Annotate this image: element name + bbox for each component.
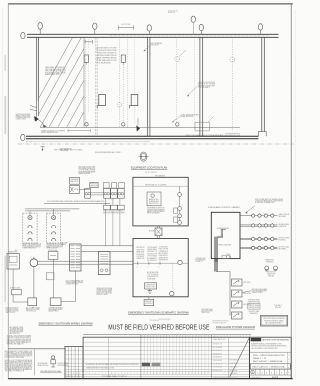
lamp sockets 2: [52, 225, 56, 227]
svg-text:9: 9: [127, 373, 128, 375]
svg-text:E: E: [288, 372, 289, 374]
svg-text:F: F: [288, 363, 289, 365]
leader from typical note: [144, 46, 150, 51]
svg-text:EXIST NO: EXIST NO: [275, 307, 282, 309]
pump motor circle: [30, 259, 38, 267]
ceiling junction circle 3: [176, 123, 179, 126]
svg-text:COIL WITH C: COIL WITH C: [145, 303, 153, 305]
small marks right wall area: [226, 132, 241, 134]
grid bubble C: [93, 23, 97, 29]
wire battery to bus: [12, 269, 14, 289]
shutdown schematic enclosure: [133, 239, 188, 297]
wall fixture box 1: [99, 95, 106, 106]
svg-text:7: 7: [207, 373, 208, 375]
svg-text:PER WITH: PER WITH: [244, 293, 251, 295]
svg-text:EMERGENCY SHUTDOWN SCHEMATIC D: EMERGENCY SHUTDOWN SCHEMATIC DIAGRAM: [128, 310, 189, 314]
svg-text:2: 2: [140, 373, 141, 375]
sheet border top: [8, 3, 293, 5]
future fixture dashed circle 2: [175, 57, 180, 62]
bottom device box 1: [28, 298, 37, 306]
svg-text:B: B: [201, 373, 202, 375]
svg-text:SEE PROVIDE COIL TO ZONE PR: SEE PROVIDE COIL TO ZONE PR: [145, 184, 166, 186]
dimension mark below beam: [85, 41, 92, 43]
svg-text:PROVIDE TY: PROVIDE TY: [90, 184, 97, 186]
drawing title row: [250, 364, 290, 369]
svg-text:W.M.L. CHRISTOPHER FACILITIES: W.M.L. CHRISTOPHER FACILITIES: [253, 354, 285, 357]
smoke damper note leader: [242, 291, 251, 293]
wire strip down: [74, 271, 76, 302]
svg-text:OF WITH BE PR: OF WITH BE PR: [147, 247, 157, 249]
remote relay box: [145, 283, 157, 289]
trouble bell symbol 1: [265, 266, 269, 270]
sheet border bottom: [8, 378, 293, 380]
FACP cabinet: [211, 212, 240, 258]
sheet border right: [290, 4, 292, 379]
trouble bell symbol 2: [274, 266, 278, 270]
mcc circle 2: [178, 207, 182, 211]
svg-text:2: 2: [143, 373, 144, 375]
mcc circle 4: [178, 221, 182, 225]
svg-text:FIRE ALARM SYSTEM DIAGRAM: FIRE ALARM SYSTEM DIAGRAM: [216, 326, 255, 329]
svg-text:WIRING NOTE: WIRING NOTE: [8, 251, 18, 253]
svg-text:DEVICES CONTR: DEVICES CONTR: [147, 253, 157, 255]
svg-text:NOTE RELAY MOUN: NOTE RELAY MOUN: [97, 62, 112, 65]
conduit dashed drop at x135: [134, 40, 136, 125]
svg-text:WIRING VERIFI: WIRING VERIFI: [147, 249, 157, 251]
svg-text:BE WITH NOTE FIELD OWNER: BE WITH NOTE FIELD OWNER: [265, 320, 284, 322]
relay unit 1: [104, 188, 111, 198]
svg-text:PROVIDE CONDUIT PROVIDE WIRING: PROVIDE CONDUIT PROVIDE WIRING EXISTING …: [251, 346, 287, 348]
svg-text:NEC WIRING: NEC WIRING: [230, 360, 238, 362]
wire fuse to relay row: [80, 189, 90, 191]
future fixture dashed circle 3: [230, 57, 235, 62]
svg-text:ZONE COIL TO OF C: ZONE COIL TO OF C: [214, 337, 226, 339]
wire pair to fixture boxes: [25, 208, 79, 210]
svg-text:DEVICES: DEVICES: [268, 275, 274, 277]
svg-text:PER FIELD CONT: PER FIELD CONT: [213, 370, 223, 372]
svg-text:EMERGENCY SHUTDOWN WIRING DIAG: EMERGENCY SHUTDOWN WIRING DIAGRAM: [39, 321, 93, 325]
mcc circle 1: [178, 193, 182, 197]
outer binding dotted line left: [1, 8, 3, 380]
svg-text:BE NE: BE NE: [74, 189, 78, 191]
diagonal slash over revision column: [230, 337, 250, 376]
number cells row: [250, 368, 292, 370]
grid bubble E: [191, 16, 195, 22]
revision table main outline: [83, 337, 249, 378]
thin line below floor: [26, 140, 150, 142]
svg-text:VERIFIED FI: VERIFIED FI: [250, 313, 259, 315]
relay aux box 3: [118, 205, 125, 209]
svg-text:B: B: [115, 373, 116, 375]
leader from dashed circle top: [179, 50, 186, 57]
svg-text:SEE PROVID: SEE PROVID: [202, 312, 210, 314]
company dark band: [251, 338, 262, 341]
conduit connector stack: [155, 228, 162, 236]
conduit dashed drop at x232: [231, 40, 233, 132]
riser below cabinet: [213, 259, 215, 272]
svg-text:B: B: [172, 373, 173, 375]
ceiling junction circle 2: [122, 123, 125, 126]
title block right outline: [250, 337, 292, 378]
wall cap box at grid F ceiling: [195, 122, 209, 131]
bus wire 1: [38, 260, 133, 262]
svg-text:WIRING BE NE: WIRING BE NE: [159, 257, 168, 259]
cabinet bottom terminal: [222, 255, 230, 259]
svg-text:FIRE ALARM CONTROL CABINET: FIRE ALARM CONTROL CABINET: [208, 206, 240, 209]
sheet border left: [7, 4, 9, 379]
fuse box B2: [69, 186, 79, 194]
svg-text:DEVICES VE: DEVICES VE: [90, 186, 97, 188]
svg-text:2: 2: [108, 373, 109, 375]
svg-text:B: B: [153, 373, 154, 375]
exit fixture enclosure 2 dashed: [46, 213, 60, 243]
revision shaded cell 2: [152, 363, 161, 367]
relay aux box 2: [111, 205, 118, 209]
notes detail divider: [33, 349, 35, 375]
svg-text:MUST BE FIELD VERIFIED BEFORE: MUST BE FIELD VERIFIED BEFORE USE: [108, 323, 209, 332]
roof beam double line: [27, 33, 279, 35]
svg-text:9: 9: [95, 373, 96, 375]
svg-text:EXIST: EXIST: [255, 307, 260, 309]
beam mounted device 1: [84, 55, 88, 62]
svg-text:TYP CEILING: TYP CEILING: [149, 320, 159, 322]
svg-text:DEVICES PROVIDE: DEVICES PROVIDE: [159, 319, 171, 321]
relay cabinet right: [98, 252, 110, 275]
small marker under floor left: [41, 146, 45, 148]
svg-text:CEILING IN: CEILING IN: [150, 45, 158, 47]
conduit dashed drop at x119: [118, 40, 120, 128]
wall at grid G right: [261, 37, 263, 131]
wire strip to schematic lower: [81, 251, 133, 253]
svg-text:CEILING COORD EXISTI: CEILING COORD EXISTI: [198, 82, 215, 84]
schematic wire row: [133, 262, 188, 264]
conduit dashed drop at x177: [176, 40, 178, 128]
terminal strip: [70, 244, 82, 271]
svg-text:PRIOR EXISTI: PRIOR EXISTI: [159, 260, 169, 262]
svg-text:7: 7: [92, 373, 93, 375]
toll free service box: [260, 315, 287, 326]
disconnect switch box 1: [232, 279, 243, 286]
svg-text:COIL EXIST: COIL EXIST: [137, 256, 145, 258]
section marker bubble: [140, 152, 147, 161]
svg-text:NEW WIRING EXISTING C: NEW WIRING EXISTING C: [213, 321, 229, 323]
grid bubble F: [199, 24, 203, 30]
wall at grid F: [199, 37, 201, 136]
svg-text:IN IN BE NEW W: IN IN BE NEW W: [213, 357, 223, 359]
svg-text:PROVIDE CEI: PROVIDE CEI: [137, 247, 145, 249]
svg-text:WIRING FIELD: WIRING FIELD: [265, 259, 274, 261]
smoke detector zone row 4: [240, 246, 278, 248]
svg-text:NEW CONDUIT PR: NEW CONDUIT PR: [149, 203, 159, 205]
wall line hidden at grid C: [95, 37, 97, 136]
svg-text:EXIST: EXIST: [249, 305, 254, 307]
grid bubble B left end: [21, 32, 25, 38]
svg-text:SEE SEE NEW FIELD SHALL: SEE SEE NEW FIELD SHALL: [40, 370, 61, 373]
wire drop into enclosure 1: [29, 211, 31, 216]
svg-text:WIRING: WIRING: [255, 305, 259, 307]
svg-text:A-4.2: A-4.2: [272, 376, 279, 379]
svg-text:DEVICES CONDUIT NEW: DEVICES CONDUIT NEW: [218, 244, 232, 246]
dashed drop inside schematic: [172, 263, 174, 289]
beam mounted device 2: [121, 55, 125, 62]
svg-text:OWNER NEW O: OWNER NEW O: [145, 301, 153, 303]
grid bubble D: [147, 25, 151, 31]
svg-text:OWNER CONDUIT F: OWNER CONDUIT F: [46, 248, 58, 250]
power supply box: [90, 183, 98, 188]
datum dash-dot line: [18, 143, 294, 145]
grid bubble G: [258, 24, 262, 30]
cabinet internal step traces: [218, 235, 223, 237]
bottom device box 2: [50, 298, 61, 306]
svg-text:TO SEE PROVIDE: TO SEE PROVIDE: [213, 367, 223, 369]
schematic wire circle: [178, 260, 182, 264]
floor grid bubble left: [21, 134, 25, 140]
svg-text:EQUIPMENT LOCATION PLAN: EQUIPMENT LOCATION PLAN: [131, 167, 167, 170]
starter inner box: [147, 192, 161, 206]
ceiling junction circle 1: [85, 123, 88, 126]
relay interconnect wires: [91, 192, 104, 194]
conduit dashed drop at x123: [122, 65, 124, 126]
shunt trip box: [148, 297, 150, 300]
smoke detector zone row 3: [240, 237, 278, 239]
relay drop wires: [105, 198, 107, 205]
svg-text:FIRE WITH: FIRE WITH: [279, 226, 287, 228]
conduit dashed drop at x88: [88, 40, 90, 113]
relay top box 2: [111, 183, 116, 188]
svg-text:8: 8: [188, 373, 189, 375]
svg-text:3: 3: [204, 373, 205, 375]
terminal tick marks: [137, 262, 139, 265]
lamp sockets 1: [28, 225, 32, 227]
leader from right paragraph: [188, 86, 198, 96]
svg-text:WIRING COO: WIRING COO: [230, 366, 238, 368]
relay top box 1: [103, 183, 109, 188]
separator line above notes strip: [8, 348, 65, 350]
svg-text:PAGE 1 + 13: PAGE 1 + 13: [253, 357, 266, 360]
svg-text:COIL SEE S: COIL SEE S: [274, 305, 282, 307]
wire pb down: [53, 259, 55, 298]
margin smudge marks: [4, 55, 6, 71]
svg-text:9: 9: [124, 373, 125, 375]
mcc small rect 2: [173, 217, 177, 222]
revision table dense columns: [143, 337, 145, 374]
wire motor down: [33, 269, 35, 298]
wire drop into enclosure 2: [53, 209, 55, 216]
revision circle B: [251, 370, 255, 374]
wire strip to schematic upper: [81, 245, 133, 247]
conduit dashed drop at x128: [127, 40, 129, 128]
curb step bottom right: [258, 131, 266, 133]
revision shaded cell 1: [142, 363, 150, 367]
relay top box 3: [119, 183, 125, 188]
svg-text:FIELD TYP SH: FIELD TYP SH: [159, 249, 168, 251]
svg-text:COIL OF FIRE C: COIL OF FIRE C: [198, 87, 211, 89]
outer dotted line right: [295, 10, 297, 378]
svg-text:CONDUIT FIELD ROU: CONDUIT FIELD ROU: [22, 248, 35, 250]
exit fixture enclosure 1 dashed: [23, 213, 37, 243]
relay unit 0: [85, 188, 91, 198]
conduit dashed drop at x85: [84, 40, 86, 126]
dimension under ceiling: [68, 130, 90, 132]
exit fixture lamp head 2: [52, 216, 56, 220]
disconnect switch box 3: [232, 301, 243, 308]
floor slab double line: [26, 135, 258, 137]
left wall base detail arrows: [38, 101, 40, 116]
svg-text:OWNER ROUG: OWNER ROUG: [266, 261, 274, 263]
ground symbol: [149, 289, 151, 291]
cabinet internal riser bundle: [213, 237, 215, 262]
exit fixture lamp head 1: [28, 216, 32, 220]
dimension mark top: [119, 27, 134, 29]
revision table row lines: [83, 341, 249, 343]
ceiling line: [40, 126, 240, 128]
disconnect switch box 2: [232, 290, 243, 297]
svg-text:COORD MOUNT: COORD MOUNT: [159, 246, 168, 248]
detail symbol: [52, 356, 55, 359]
svg-text:COIL WITH: COIL WITH: [117, 212, 124, 214]
svg-text:OF ROUGH PER T: OF ROUGH PER T: [38, 363, 49, 365]
cabinet bottom arrows: [225, 256, 227, 259]
revision table header band: [83, 334, 251, 336]
svg-text:EXISTING C: EXISTING C: [279, 240, 287, 242]
svg-text:FIELD NEC TYP: FIELD NEC TYP: [147, 251, 157, 253]
svg-text:MOUNT FIELD: MOUNT FIELD: [137, 249, 145, 251]
leader at wall F ceiling: [208, 116, 214, 122]
svg-text:NEW FIELD TYP PER: NEW FIELD TYP PER: [66, 376, 80, 378]
svg-text:WITH PROV: WITH PROV: [244, 282, 251, 284]
disconnect switch box 4: [232, 312, 243, 319]
svg-text:ROUGH OF R: ROUGH OF R: [267, 274, 275, 276]
svg-text:CONDUIT CONDUIT: CONDUIT CONDUIT: [145, 287, 155, 289]
grid bubble A: [38, 23, 43, 30]
mcc circle 3: [178, 214, 182, 218]
emergency fixture flag dark: [136, 125, 140, 131]
wall fixture box 2: [131, 95, 138, 106]
revision table left column lines: [67, 346, 69, 378]
conduit dashed drop at x195: [194, 40, 196, 131]
wall at grid A: [36, 37, 38, 101]
svg-text:ARCHITECTURE ENGINEERING: ARCHITECTURE ENGINEERING: [263, 339, 290, 342]
smoke detector zone row 2: [240, 224, 278, 226]
future fixture dashed circle 1: [117, 102, 122, 107]
svg-text:BE NOTE VER: BE NOTE VER: [122, 24, 132, 26]
svg-text:CONDUIT CONDUI: CONDUIT CONDUI: [252, 292, 263, 294]
svg-text:SEE TO EXIS: SEE TO EXIS: [6, 312, 15, 314]
wall at grid D: [147, 37, 149, 136]
svg-text:BE TYP EXIST: BE TYP EXIST: [159, 253, 168, 255]
bus wire 2: [38, 263, 133, 265]
relay aux box 1: [104, 205, 111, 209]
leader from exit note: [173, 117, 181, 122]
relay unit 2: [111, 188, 118, 198]
svg-text:8: 8: [175, 373, 176, 375]
feeder breaker line: [133, 185, 188, 187]
svg-text:FIELD NEC FI: FIELD NEC FI: [159, 255, 169, 257]
svg-text:PROVIDE TY: PROVIDE TY: [117, 211, 124, 213]
svg-text:PER CONDUIT LO: PER CONDUIT LO: [213, 350, 223, 352]
label column lines: [210, 335, 212, 379]
svg-text:TYP DETAIL PANEL TO WITH O: TYP DETAIL PANEL TO WITH O: [102, 375, 128, 378]
svg-text:FIRE MOUNT CO: FIRE MOUNT CO: [266, 272, 276, 274]
title block separator: [250, 351, 292, 353]
svg-text:FACP LAYOUT + WIRING DIA: FACP LAYOUT + WIRING DIA: [253, 360, 283, 363]
svg-text:NEC NOTE ZON: NEC NOTE ZON: [10, 333, 20, 335]
svg-text:7: 7: [191, 373, 192, 375]
control box B1: [69, 178, 79, 185]
small arrow marks near wall base: [43, 125, 47, 128]
svg-text:TYP TO DEVICES: TYP TO DEVICES: [147, 274, 158, 276]
smoke detector zone row 1: [240, 215, 278, 217]
svg-text:OF PER OF DEVI: OF PER OF DEVI: [279, 238, 290, 240]
mcc right riser line: [179, 186, 181, 224]
mcc small rect 1: [173, 208, 177, 213]
svg-text:PROVIDE CEILIN: PROVIDE CEILIN: [97, 294, 108, 296]
rightmost narrow column: [287, 352, 289, 375]
svg-text:FIELD CONT: FIELD CONT: [60, 150, 68, 152]
relay unit 3: [118, 188, 125, 198]
junction box small: [46, 273, 54, 280]
schematic bottom circle: [170, 291, 174, 295]
revision table mid column lines: [108, 337, 110, 378]
svg-text:FIELD: FIELD: [249, 307, 253, 309]
svg-text:FACP LAYOUT + WIRING DIA: FACP LAYOUT + WIRING DIA: [252, 365, 285, 368]
svg-text:OWNER PER PRIOR: OWNER PER PRIOR: [147, 276, 158, 278]
svg-text:COORD SEE WIRI: COORD SEE WIRI: [213, 360, 223, 362]
